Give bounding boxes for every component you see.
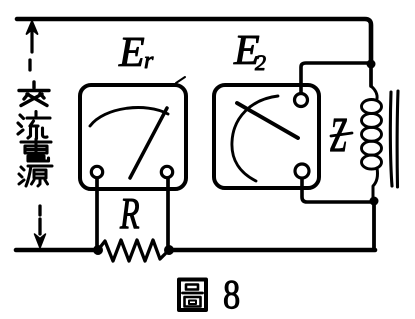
svg-text:R: R — [119, 189, 140, 238]
node junction top-right — [367, 60, 376, 69]
voltmeter E2 needle — [237, 103, 298, 138]
terminal E1 right — [161, 166, 172, 177]
wire top horizontal — [17, 19, 371, 64]
node junction resistor-right — [164, 245, 174, 255]
voltmeter E1 box — [80, 85, 186, 189]
wire E1 left terminal down — [95, 177, 99, 248]
wire node down to coil — [369, 64, 373, 86]
voltmeter E1 corner tick — [176, 77, 185, 83]
voltmeter E2 scale arc — [232, 96, 278, 181]
svg-text:r: r — [144, 48, 154, 74]
label 流 (liu) — [18, 112, 50, 139]
label Z — [330, 107, 347, 161]
arrow down (AC source) — [38, 206, 41, 215]
label 電 (dian) — [21, 139, 51, 161]
svg-text:E: E — [118, 30, 145, 76]
wire E2 top terminal to node — [301, 63, 368, 93]
label 交 (jiao) — [19, 82, 49, 106]
terminal E1 left — [91, 166, 102, 177]
arrow up (AC source) — [27, 21, 38, 34]
caption 圖 (tu) — [179, 280, 206, 311]
label 源 (yuan) — [19, 166, 52, 186]
wire bottom rail right — [169, 248, 375, 253]
voltmeter E2 box — [214, 85, 319, 188]
inductor core lines — [390, 92, 392, 186]
terminal E2 top — [295, 94, 308, 107]
svg-text:8: 8 — [223, 272, 240, 317]
node junction bottom-right — [370, 197, 379, 206]
node junction resistor-left — [93, 245, 103, 255]
svg-text:2: 2 — [255, 50, 266, 75]
voltmeter E1 needle — [130, 108, 167, 178]
wire E1 right terminal down — [166, 178, 170, 248]
voltmeter E1 scale arc — [90, 108, 168, 126]
wire bottom rail left — [16, 248, 98, 253]
resistor R — [98, 240, 169, 261]
label R — [119, 189, 140, 238]
terminal E2 bottom — [295, 164, 309, 178]
wire E2 bottom terminal to node — [302, 179, 371, 202]
caption 8 — [223, 272, 240, 317]
wire node down to bottom rail — [372, 201, 376, 250]
inductor Z coil — [371, 86, 377, 99]
